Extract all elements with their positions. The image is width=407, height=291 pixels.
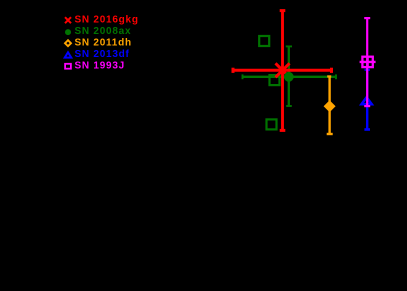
green error bars (SN 2008ax) [243,46,337,106]
legend marker: magenta square (SN 1993J) [65,64,71,69]
green filled circle marker (SN 2008ax) [284,72,294,82]
legend marker: blue triangle (SN 2013df) [65,52,72,57]
legend marker: green circle (SN 2008ax) [65,29,71,35]
svg-text:SN 2013df: SN 2013df [75,49,130,60]
green open squares [259,36,279,129]
svg-text:SN 2011dh: SN 2011dh [75,38,132,49]
svg-text:SN 2016gkg: SN 2016gkg [75,15,139,26]
blue error bar + triangle (SN 2013df) [364,70,370,130]
svg-text:SN 1993J: SN 1993J [75,61,125,72]
orange error bar + diamond (SN 2011dh) [327,76,333,134]
red error bars + X marker (SN 2016gkg) [233,11,332,131]
legend marker: orange diamond (SN 2011dh) [65,40,71,46]
svg-text:SN 2008ax: SN 2008ax [75,26,132,37]
legend marker: red X (SN 2016gkg) [65,17,71,23]
magenta error bar + square-plus (SN 1993J) [364,18,370,106]
